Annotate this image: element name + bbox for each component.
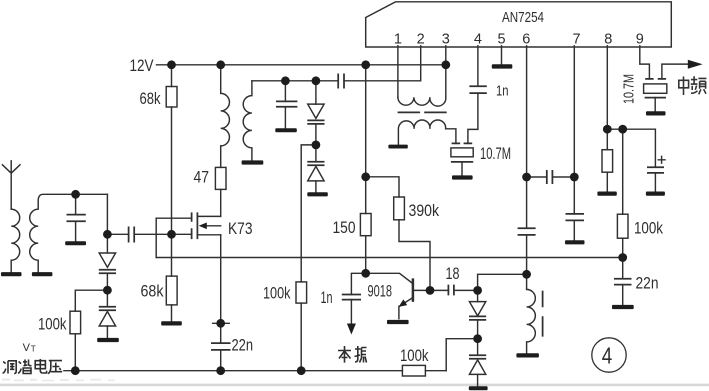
svg-text:3: 3 [442,31,450,47]
svg-text:47: 47 [194,169,210,187]
svg-text:4: 4 [474,31,482,47]
svg-text:100k: 100k [400,347,429,365]
svg-text:T: T [31,343,36,353]
svg-text:2: 2 [417,31,425,47]
svg-text:5: 5 [497,31,505,47]
svg-text:1n: 1n [321,289,333,307]
svg-text:K73: K73 [228,220,253,238]
svg-text:9018: 9018 [368,282,393,300]
svg-text:22n: 22n [232,337,254,355]
svg-text:9: 9 [636,31,644,47]
svg-text:4: 4 [602,343,613,369]
svg-text:18: 18 [446,265,460,283]
svg-text:8: 8 [604,31,612,47]
svg-text:68k: 68k [141,283,165,301]
svg-text:1n: 1n [496,82,509,99]
svg-text:10.7M: 10.7M [480,145,511,163]
svg-text:390k: 390k [409,202,440,220]
svg-text:100k: 100k [38,316,67,334]
svg-text:100k: 100k [634,219,664,237]
svg-text:V: V [23,342,31,354]
svg-text:AN7254: AN7254 [502,9,544,26]
svg-text:22n: 22n [636,275,659,293]
svg-text:10.7M: 10.7M [621,74,638,104]
svg-text:150: 150 [333,219,356,237]
svg-text:100k: 100k [263,284,291,302]
svg-text:6: 6 [522,31,530,47]
svg-text:1: 1 [394,31,402,47]
svg-text:7: 7 [572,31,580,47]
svg-text:68k: 68k [140,90,162,108]
svg-text:12V: 12V [130,57,154,75]
